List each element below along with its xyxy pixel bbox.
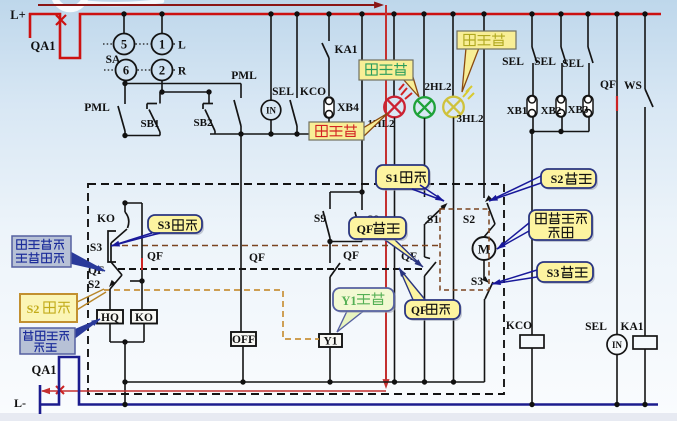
SA contact 6 (116, 60, 137, 81)
label L+ (10, 8, 25, 22)
svg-text:IN: IN (266, 106, 277, 116)
label QF (aux) (88, 265, 104, 277)
wire to S2 contact (481, 11, 486, 198)
svg-text:XB4: XB4 (337, 102, 359, 114)
label SA (106, 54, 121, 66)
svg-text:QF: QF (147, 251, 163, 263)
label XB2 (541, 105, 562, 117)
svg-text:S2: S2 (551, 172, 564, 186)
svg-text:XB2: XB2 (541, 105, 562, 117)
node KO branch top (122, 200, 127, 205)
callout: QF opens (349, 217, 425, 269)
label SB2 (194, 117, 213, 129)
svg-text:S2: S2 (88, 279, 100, 291)
node under SA-6 (122, 81, 127, 86)
callout: charging motor stops (495, 210, 594, 252)
test link XB4 (324, 97, 334, 118)
label 1HL2 (368, 118, 395, 130)
callout box: closing coil de-energized (gray) (20, 316, 102, 354)
svg-text:S3: S3 (90, 242, 102, 254)
label S8 (367, 214, 379, 226)
wire trip branch to KO coil (141, 281, 143, 310)
label L (selector position) (178, 40, 186, 52)
callout: S3 opens (491, 262, 595, 287)
wire KCO to L- (531, 348, 533, 405)
contact SEL (XB1 branch) (529, 11, 537, 95)
svg-text:S3: S3 (471, 276, 483, 288)
yellow flash marks (463, 86, 474, 99)
wire bus to L- rail (124, 382, 126, 405)
svg-text:KO: KO (135, 312, 153, 324)
test link XB3 (583, 96, 593, 118)
svg-text:KCO: KCO (506, 320, 532, 332)
label S3 (aux) (90, 242, 102, 254)
svg-text:S3: S3 (158, 218, 171, 232)
contact QF (closed, red) column (614, 11, 619, 334)
label PML (left) (84, 102, 110, 114)
callout: S2 opens (488, 169, 598, 204)
svg-text:SEL: SEL (534, 56, 556, 68)
wire OFF branch (240, 134, 242, 332)
wire KO to S3 (111, 229, 127, 243)
wire SEL to rail (270, 120, 272, 134)
label S9 (314, 213, 326, 225)
svg-text:SEL: SEL (502, 56, 524, 68)
label L- (14, 396, 26, 410)
lamp 1HL2 (red) (384, 97, 405, 118)
svg-text:5: 5 (121, 38, 127, 52)
wire SA-2 to node (161, 81, 163, 93)
svg-text:QF: QF (600, 79, 616, 91)
wire SA-6 to node (125, 81, 126, 84)
callout: QF closes (396, 266, 462, 321)
wire to S9 (330, 191, 362, 193)
wire PML-SB1 join (122, 133, 160, 138)
svg-text:S1: S1 (386, 171, 399, 185)
wire bus to SA-5 (121, 11, 126, 33)
L- rail junction nodes (122, 402, 647, 407)
svg-text:PML: PML (231, 70, 257, 82)
wire to lamp 2HL2 (421, 11, 426, 97)
svg-text:S3: S3 (547, 266, 560, 280)
label QF (lamp branch) (401, 251, 417, 263)
svg-text:S2: S2 (463, 214, 475, 226)
svg-text:1: 1 (159, 38, 165, 52)
test link XB2 (556, 96, 566, 118)
switch PML (left) (118, 84, 125, 136)
label QA1 (bottom) (32, 363, 57, 377)
svg-text:XB3: XB3 (568, 104, 589, 116)
wire XB4 to rail (328, 118, 330, 134)
callout box: S2 closes (yellow/brown) (20, 289, 106, 322)
svg-text:HQ: HQ (101, 312, 119, 324)
svg-text:SA: SA (106, 54, 121, 66)
pushbutton SB1 (NC) (147, 92, 160, 136)
L- terminal stub (39, 385, 42, 414)
wire S8 column from bus (359, 11, 364, 192)
label SEL (XB1) (502, 56, 524, 68)
label XB3 (568, 104, 589, 116)
label SB1 (141, 118, 160, 130)
label QF (OFF branch) (249, 252, 265, 264)
svg-text:KO: KO (97, 213, 115, 225)
coil KCO (520, 335, 544, 348)
bottom collector bus (122, 379, 484, 384)
return current-path line (red) (41, 388, 386, 394)
svg-text:R: R (178, 66, 187, 78)
label QF (trip branch) (147, 251, 163, 263)
svg-text:3HL2: 3HL2 (457, 113, 484, 125)
svg-text:KA1: KA1 (621, 321, 644, 333)
svg-text:KCO: KCO (300, 86, 326, 98)
wire bus to SEL indicator (268, 11, 273, 100)
indicator SEL (IN, bottom) (607, 335, 627, 355)
contact KA1 (322, 11, 332, 96)
lamp 2HL2 (green) (414, 97, 435, 118)
label QF (right) (600, 79, 616, 91)
rail from SA-2 (162, 89, 212, 94)
label SEL (272, 86, 294, 98)
label QF (Y1 branch) (343, 250, 359, 262)
contact SEL (XB3 branch) (585, 11, 593, 95)
contact SEL (XB2 branch) (558, 11, 566, 95)
mechanism dashed box (88, 184, 504, 394)
switch PML (second) (234, 84, 241, 135)
red flash marks (399, 84, 412, 99)
motor M (473, 237, 496, 260)
label SEL (XB2) (534, 56, 556, 68)
SA contact 5 (114, 34, 135, 55)
node S9/S8 bottom (327, 239, 362, 244)
svg-text:S9: S9 (314, 213, 326, 225)
coil OFF (231, 332, 256, 346)
callout: green lamp off (359, 60, 419, 97)
label 2HL2 (425, 81, 452, 93)
label KA1 (coil) (621, 321, 644, 333)
svg-text:XB1: XB1 (507, 105, 528, 117)
label S1 (427, 214, 439, 226)
wire OFF to bus (242, 346, 244, 382)
svg-text:SEL: SEL (272, 86, 294, 98)
svg-text:SEL: SEL (585, 321, 607, 333)
node S9/S8 top (359, 189, 364, 194)
svg-text:2: 2 (159, 64, 165, 78)
XB join rail (529, 117, 589, 134)
wire to lamp 3HL2 (450, 11, 455, 97)
SA contact 1 (152, 34, 173, 55)
label XB1 (507, 105, 528, 117)
wire trip branch (125, 203, 142, 281)
contact QF (aux switch) (111, 262, 122, 275)
wire Y1 to bus (329, 347, 331, 382)
svg-text:L+: L+ (10, 8, 25, 22)
svg-text:SB1: SB1 (141, 118, 160, 130)
coil HQ (97, 310, 123, 324)
label PML (second) (231, 70, 257, 82)
callout: yellow lamp on (457, 31, 516, 92)
wire to KCO coil (531, 132, 533, 336)
contact WS (642, 11, 653, 336)
svg-text:QF: QF (357, 222, 374, 236)
current-path line (vertical, red) (382, 5, 389, 389)
wire join to bus (124, 342, 126, 382)
svg-text:SB2: SB2 (194, 117, 213, 129)
wire to lamp 1HL2 (391, 11, 396, 97)
wire SEL to L- (616, 355, 618, 406)
svg-text:QA1: QA1 (32, 363, 57, 377)
callout: S1 closes (376, 165, 445, 204)
return path X break (56, 386, 64, 394)
rail from SA-6 (125, 83, 241, 85)
svg-text:QF: QF (343, 250, 359, 262)
wire HQ KO join (110, 324, 144, 345)
contact S3 (aux switch) (108, 231, 116, 262)
current-path line (top, with arrow) (38, 1, 384, 8)
linkage dashed line S-contacts (brown) (112, 245, 440, 247)
contact S9 (323, 192, 330, 242)
contact S3 (travel switch) (482, 260, 493, 382)
linkage dashed line QF (black) (118, 268, 424, 270)
svg-text:PML: PML (84, 102, 110, 114)
label XB4 (337, 102, 359, 114)
coil KA1 (633, 336, 657, 349)
svg-text:QF: QF (249, 252, 265, 264)
svg-text:L-: L- (14, 396, 26, 410)
label KCO (coil) (506, 320, 532, 332)
sub dashed box (motor group, brown) (440, 209, 489, 290)
svg-text:Y1: Y1 (341, 294, 356, 308)
node trip branch bottom (130, 278, 145, 283)
SA contact 2 (152, 60, 173, 81)
contact QF (lamp branch) (425, 257, 437, 382)
wire bus to SA-1 (159, 11, 164, 33)
contact KO (125, 203, 129, 228)
SA dotted linkage (103, 44, 177, 70)
contact S2 (travel switch) (483, 195, 495, 237)
watermark logo arc (54, 0, 162, 9)
contact S1 (travel switch) (425, 201, 450, 257)
svg-text:WS: WS (624, 80, 642, 92)
breaker QA1 negative pole (blue rail dip) (40, 357, 658, 405)
label S3 (motor branch) (471, 276, 483, 288)
svg-text:SEL: SEL (562, 58, 584, 70)
svg-text:6: 6 (123, 64, 129, 78)
svg-text:IN: IN (612, 340, 623, 350)
wire 3HL2 to bus (453, 118, 455, 383)
svg-text:S1: S1 (427, 214, 439, 226)
label KA1 (335, 44, 358, 56)
svg-text:S2: S2 (27, 302, 40, 316)
coil KO (131, 310, 157, 324)
label SEL (bottom) (585, 321, 607, 333)
coil Y1 (319, 334, 342, 348)
label S2 (motor branch) (463, 214, 475, 226)
label 3HL2 (457, 113, 484, 125)
breaker QA1 positive pole (red bus dip with X break) (29, 14, 661, 58)
label S2 (aux) (88, 279, 100, 291)
svg-text:L: L (178, 40, 186, 52)
svg-text:QF: QF (411, 305, 427, 317)
wire 1HL2 to bus (394, 118, 396, 383)
contact KCO (290, 11, 300, 134)
wire KA1 to L- (644, 349, 646, 405)
svg-text:QA1: QA1 (31, 39, 56, 53)
linkage dashed path S2-Y1 (orange) (104, 290, 319, 339)
L+ terminal stub (29, 13, 32, 38)
wire 2HL2 to S1 (424, 118, 426, 197)
svg-text:KA1: KA1 (335, 44, 358, 56)
contact S8 (355, 192, 362, 242)
indicator SEL (IN) (261, 100, 281, 120)
pushbutton SB2 (NC) (203, 92, 215, 134)
svg-text:2HL2: 2HL2 (425, 81, 452, 93)
label R (selector position) (178, 66, 187, 78)
callout: red lamp on (309, 113, 388, 140)
lamp 3HL2 (yellow) (443, 97, 464, 118)
collector rail y=134 (210, 131, 362, 136)
contact S2 (aux switch) (107, 275, 122, 310)
callout: S3 closes (110, 215, 204, 249)
label SEL (XB3) (562, 58, 584, 70)
svg-text:Y1: Y1 (323, 336, 337, 348)
test link XB1 (527, 96, 537, 118)
callout: Y1 energized (green) (333, 288, 396, 332)
label KCO (300, 86, 326, 98)
label KO (contact) (97, 213, 115, 225)
label QA1 (top) (31, 39, 56, 53)
label WS (624, 80, 642, 92)
callout box: switch auxiliary contact change (gray) (12, 236, 106, 274)
contact QF (above Y1) (330, 242, 340, 335)
svg-text:OFF: OFF (232, 334, 255, 346)
node under SA-2 (159, 89, 164, 94)
